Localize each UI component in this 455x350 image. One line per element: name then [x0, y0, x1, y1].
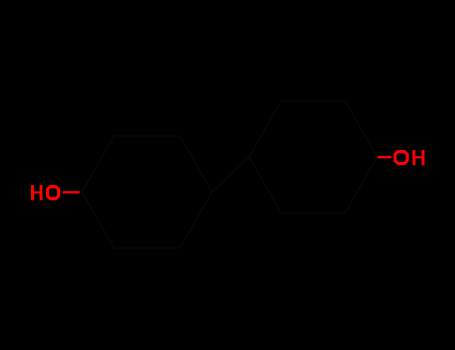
- right cyclohexane ring: [249, 101, 377, 213]
- label OH : H glyph: [413, 150, 425, 165]
- inter-ring C-C bond: [212, 157, 249, 192]
- right C-O bond (red): [378, 156, 392, 158]
- label HO : H glyph: [31, 185, 43, 200]
- left cyclohexane ring: [82, 136, 212, 248]
- left C-O bond (red): [63, 191, 80, 193]
- left O-C dark stub: [80, 191, 83, 193]
- label OH : O glyph: [394, 150, 409, 165]
- label HO : O glyph: [46, 185, 60, 200]
